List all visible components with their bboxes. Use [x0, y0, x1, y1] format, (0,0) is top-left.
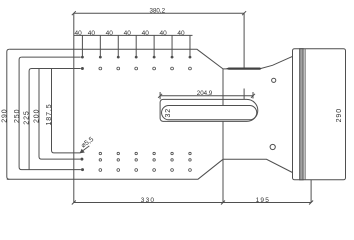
svg-text:40: 40 — [177, 30, 185, 37]
svg-text:204,9: 204,9 — [197, 90, 213, 97]
svg-text:290: 290 — [2, 108, 9, 122]
svg-text:195: 195 — [256, 197, 270, 204]
svg-text:40: 40 — [142, 30, 150, 37]
svg-text:40: 40 — [74, 30, 82, 37]
svg-text:290: 290 — [336, 108, 343, 122]
svg-text:187,5: 187,5 — [46, 103, 53, 125]
svg-text:40: 40 — [106, 30, 114, 37]
svg-text:40: 40 — [88, 30, 96, 37]
svg-text:40: 40 — [124, 30, 132, 37]
svg-text:200: 200 — [34, 109, 41, 123]
svg-text:330: 330 — [141, 197, 155, 204]
svg-text:40: 40 — [159, 30, 167, 37]
svg-text:250: 250 — [14, 109, 21, 123]
svg-text:380,2: 380,2 — [150, 8, 166, 15]
svg-text:32: 32 — [165, 108, 172, 118]
svg-text:225: 225 — [24, 110, 31, 124]
